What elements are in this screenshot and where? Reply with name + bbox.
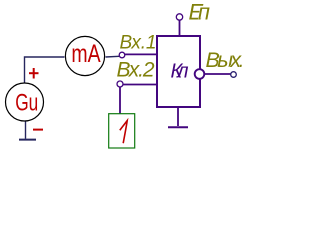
- svg-text:mA: mA: [71, 40, 100, 68]
- svg-text:Gu: Gu: [15, 90, 38, 116]
- svg-text:Кл: Кл: [171, 60, 189, 82]
- svg-text:Вых.: Вых.: [206, 48, 243, 72]
- svg-text:Вх.2: Вх.2: [117, 59, 155, 82]
- svg-text:Вх.1: Вх.1: [120, 32, 157, 53]
- svg-text:Еп: Еп: [189, 0, 211, 25]
